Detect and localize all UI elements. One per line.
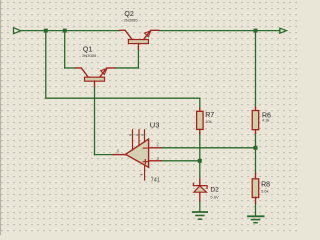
- junction on rail at x=255.5: [254, 29, 258, 33]
- wire horizontal feed to R7: [46, 97, 200, 99]
- svg-text:R8: R8: [261, 181, 270, 188]
- wire Vout rail right: [159, 30, 280, 32]
- wire Q1 base down to op-amp output: [94, 87, 96, 155]
- svg-text:2N3055: 2N3055: [124, 17, 139, 22]
- transistor Q2: [120, 30, 159, 49]
- svg-text:D2: D2: [210, 186, 219, 193]
- resistor R6: [252, 107, 259, 133]
- svg-text:5.6k: 5.6k: [261, 189, 269, 194]
- zener diode D2: [193, 179, 207, 201]
- svg-text:741: 741: [151, 178, 160, 184]
- output terminal arrow: [280, 28, 287, 33]
- svg-text:5.6V: 5.6V: [210, 194, 219, 199]
- svg-text:2: 2: [156, 142, 159, 147]
- wire R8 bottom to ground: [255, 203, 257, 216]
- wire rail down to R6 top: [255, 31, 257, 108]
- wire Vin rail left: [21, 30, 120, 32]
- svg-text:3: 3: [156, 156, 159, 161]
- op-amp pin markers: [129, 134, 144, 176]
- resistor R8: [252, 173, 259, 203]
- svg-text:4.3k: 4.3k: [262, 118, 270, 123]
- svg-text:6: 6: [117, 149, 120, 154]
- wire Q2 base vertical: [137, 49, 139, 68]
- wire down to R7 top: [199, 98, 201, 108]
- junction at zener node: [198, 159, 202, 163]
- svg-text:R7: R7: [205, 112, 214, 119]
- svg-text:10k: 10k: [205, 119, 211, 124]
- wire vertical from rail to Q1 collector: [64, 31, 66, 68]
- wire horizontal to Q1 collector: [65, 67, 76, 69]
- resistor R7: [197, 108, 204, 134]
- ground under D2: [193, 212, 207, 219]
- wire R6 bottom to R8 top: [255, 133, 257, 173]
- junction on rail at x=64.7: [63, 29, 67, 33]
- wire vertical from rail to R7 feed: [45, 31, 47, 99]
- wire op-amp output horizontal: [95, 154, 114, 156]
- wire D2 bottom to ground: [199, 201, 201, 213]
- wire Q1 emitter to Q2 base: [115, 67, 139, 69]
- wire R7 bottom to D2: [199, 134, 201, 178]
- wire op-amp pin3 to zener node: [161, 160, 200, 162]
- svg-text:2N3055: 2N3055: [82, 53, 97, 58]
- transistor Q1: [76, 68, 115, 87]
- svg-text:U3: U3: [150, 120, 160, 129]
- ground under R8: [248, 216, 264, 222]
- wire op-amp pin2 to divider node: [161, 147, 256, 149]
- junction at divider node: [254, 146, 258, 150]
- junction on rail at x=45.8: [44, 29, 48, 33]
- op-amp U3: [113, 130, 161, 180]
- input terminal arrow: [14, 28, 21, 34]
